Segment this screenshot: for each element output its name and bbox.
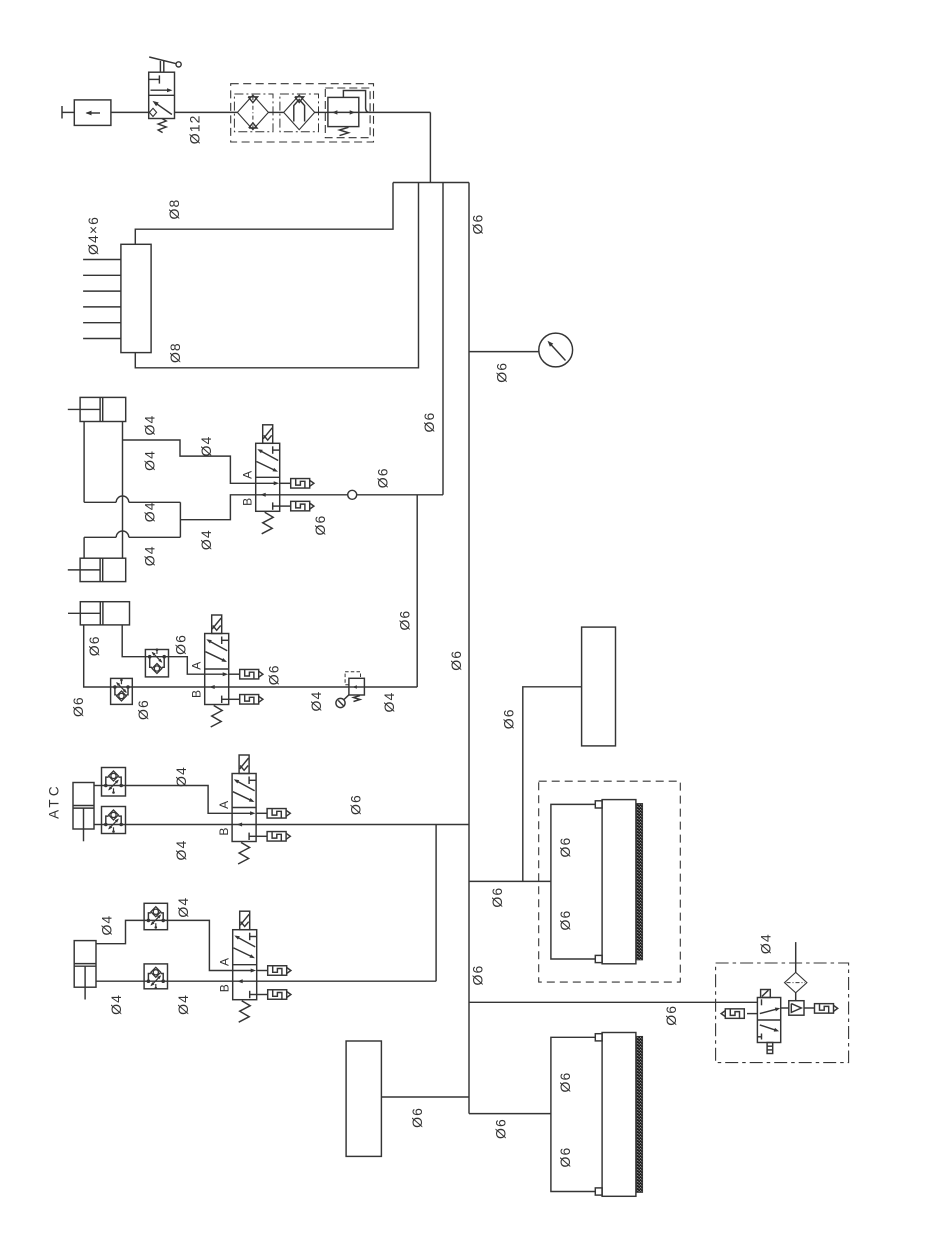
valve V4 position-2 flow paths bbox=[232, 812, 253, 814]
wire check to right muffler bbox=[804, 1007, 815, 1009]
valve V2 position-1 flow paths bbox=[272, 446, 274, 454]
flow control valve FC4b bbox=[102, 807, 126, 834]
svg-text:Ø4: Ø4 bbox=[108, 994, 124, 1015]
FRL filter F2 enclosure bbox=[280, 94, 319, 132]
supply inlet tick bbox=[61, 106, 63, 119]
svg-text:Ø4: Ø4 bbox=[173, 766, 189, 787]
svg-text:Ø6: Ø6 bbox=[470, 214, 486, 235]
wire bus to pressure gauge bbox=[469, 351, 539, 353]
svg-text:Ø6: Ø6 bbox=[469, 965, 485, 986]
valve V3 port A exhaust muffler bbox=[229, 673, 240, 675]
wire V1 to FRL bbox=[175, 111, 238, 113]
valve V4 port B side exhaust muffler bbox=[256, 835, 267, 837]
svg-text:Ø4: Ø4 bbox=[198, 529, 214, 550]
wire riser joining V5 line to V4 line bbox=[435, 825, 437, 982]
wire A-bus to valve V2 port A (Ø4) bbox=[123, 440, 256, 483]
air knife AK2 body bbox=[602, 1033, 636, 1197]
FRL regulator R1 spring bbox=[340, 127, 349, 135]
air knife AK1 supply pipe bbox=[551, 804, 595, 959]
svg-text:Ø6: Ø6 bbox=[501, 708, 517, 729]
wire B-bus upper branch bbox=[84, 501, 116, 503]
riser to manifold M2 bbox=[523, 687, 582, 882]
wire B1 to valve V1 bbox=[111, 111, 149, 113]
FRL filter F1 bbox=[237, 95, 268, 130]
svg-text:A: A bbox=[189, 661, 203, 670]
wire FC1 to valve V3 port A bbox=[169, 657, 205, 675]
valve V4 position-1 flow paths bbox=[248, 777, 250, 785]
svg-text:Ø6: Ø6 bbox=[448, 650, 464, 671]
distribution header bbox=[393, 182, 469, 184]
valve V5 position-1 flow paths bbox=[249, 933, 251, 941]
cylinder C2a piston rod bbox=[68, 408, 100, 410]
wire header to manifold M1 top (Ø8) bbox=[135, 183, 393, 245]
wire filter to check unit bbox=[795, 993, 797, 1001]
hand lever valve V1 body bbox=[149, 72, 175, 118]
svg-text:Ø4: Ø4 bbox=[141, 450, 157, 471]
svg-text:Ø6: Ø6 bbox=[493, 362, 509, 383]
wire C3 cap port to FC2 (Ø6) bbox=[84, 625, 111, 687]
pressure gauge PG1 bbox=[539, 333, 573, 367]
svg-text:Ø6: Ø6 bbox=[663, 1005, 679, 1026]
air knife AK2 inlet fitting bottom bbox=[595, 1188, 602, 1195]
valve V5 port A exhaust muffler bbox=[257, 970, 268, 972]
blow gun filter bbox=[785, 972, 807, 992]
svg-text:Ø4: Ø4 bbox=[141, 545, 157, 566]
svg-text:B: B bbox=[217, 826, 231, 835]
svg-text:Ø4: Ø4 bbox=[308, 691, 324, 712]
wire bus to manifold M2 (Ø6) bbox=[469, 880, 551, 882]
crossover hop arcs on B-bus bbox=[116, 496, 129, 502]
wire B-bus lower branch bbox=[84, 536, 116, 538]
svg-text:Ø4: Ø4 bbox=[175, 994, 191, 1015]
FRL regulator R1 enclosure bbox=[325, 88, 370, 138]
svg-text:Ø4: Ø4 bbox=[198, 436, 214, 457]
pressure regulator R3 body bbox=[349, 678, 365, 695]
wire C5 bottom port to FC5b bbox=[96, 980, 144, 982]
wire bus to blow gun (Ø6) bbox=[469, 1001, 757, 1003]
FRL filter F1 enclosure bbox=[234, 94, 273, 132]
valve V2 body bbox=[256, 443, 280, 511]
svg-text:Ø6: Ø6 bbox=[396, 610, 412, 631]
cylinder C5 body bbox=[74, 941, 96, 988]
manifold M1 outlet stubs Ø4x6 bbox=[83, 259, 121, 261]
flow control valve FC2 bbox=[111, 678, 133, 704]
wire valve V5 through-port to ATC supply line bbox=[257, 980, 436, 982]
coupling on V2 supply line bbox=[348, 490, 357, 499]
wire B-bus to valve V2 port B (Ø4) bbox=[180, 495, 255, 520]
blow gun valve BV1 exhaust stub bbox=[767, 1043, 773, 1054]
valve V5 return spring bbox=[239, 1001, 251, 1023]
svg-text:Ø6: Ø6 bbox=[265, 664, 281, 685]
blow gun check unit bbox=[789, 1001, 804, 1016]
cylinder C2b body bbox=[80, 558, 126, 581]
wire C4 bottom port to FC4b bbox=[94, 824, 102, 826]
wire BV1 outlet to check bbox=[781, 1007, 789, 1009]
svg-text:Ø4: Ø4 bbox=[381, 692, 397, 713]
valve V1 bottom position: check and exhaust path bbox=[149, 108, 156, 116]
wire FC4b to valve V4 port B bbox=[126, 824, 233, 826]
cylinder C3 body bbox=[80, 602, 129, 625]
wire B-bus join bbox=[179, 502, 181, 537]
wire valve V3 through-port to regulator R3 bbox=[229, 686, 349, 688]
wire C3 rod port to FC1 (Ø6) bbox=[122, 625, 145, 657]
valve V4 solenoid bbox=[239, 755, 249, 774]
manifold M2 block bbox=[582, 627, 616, 746]
svg-text:Ø6: Ø6 bbox=[70, 696, 86, 717]
svg-text:Ø6: Ø6 bbox=[557, 837, 573, 858]
svg-text:Ø6: Ø6 bbox=[557, 910, 573, 931]
wire supply drop to header bbox=[429, 112, 431, 182]
svg-text:Ø6: Ø6 bbox=[86, 635, 102, 656]
wire valve V2 supply to riser bbox=[280, 494, 348, 496]
wire FC4a to valve V4 port A (Ø4) bbox=[126, 786, 233, 814]
FRL regulator R1 body bbox=[328, 97, 359, 126]
valve V3 position-1 flow paths bbox=[221, 637, 223, 645]
valve V2 port A exhaust muffler bbox=[280, 482, 291, 484]
svg-text:A: A bbox=[217, 957, 231, 966]
svg-text:Ø8: Ø8 bbox=[167, 342, 183, 363]
valve V3 port B side exhaust muffler bbox=[229, 698, 240, 700]
air knife AK1 body bbox=[602, 800, 636, 964]
wire F2 to R1 bbox=[315, 111, 328, 113]
wire C2b rear port to B-bus bbox=[83, 537, 85, 558]
blow gun outlet line (Ø4) bbox=[795, 942, 797, 972]
pressure regulator R3 dashed pilot box bbox=[345, 672, 360, 685]
wire FRL to corner bbox=[359, 111, 431, 113]
svg-text:Ø6: Ø6 bbox=[421, 412, 437, 433]
valve V2 port B side exhaust muffler bbox=[280, 505, 291, 507]
air knife 1 dashed enclosure bbox=[539, 781, 681, 982]
svg-text:B: B bbox=[189, 689, 203, 698]
svg-text:Ø6: Ø6 bbox=[489, 887, 505, 908]
wire FC5b to valve V5 port B bbox=[168, 980, 233, 982]
svg-text:Ø6: Ø6 bbox=[348, 794, 364, 815]
tee: group-3 supply riser from V2 line bbox=[416, 495, 418, 687]
FRL lubricator F2 bbox=[284, 95, 315, 130]
svg-text:Ø4: Ø4 bbox=[173, 840, 189, 861]
wire C2a rear port to A-bus bbox=[83, 422, 85, 503]
blow gun valve BV1 bottom position paths bbox=[760, 1025, 777, 1031]
blow gun valve BV1 body bbox=[757, 998, 780, 1043]
svg-text:Ø4: Ø4 bbox=[141, 501, 157, 522]
svg-text:Ø6: Ø6 bbox=[557, 1072, 573, 1093]
svg-text:Ø4: Ø4 bbox=[141, 415, 157, 436]
cylinder C5 piston rod bbox=[84, 966, 86, 999]
svg-text:A: A bbox=[217, 800, 231, 809]
FRL assembly enclosure bbox=[231, 84, 374, 142]
wire bus end to air knife 2 bbox=[469, 1113, 551, 1115]
svg-text:Ø12: Ø12 bbox=[187, 114, 203, 144]
valve V5 body bbox=[233, 930, 257, 1000]
wire manifold M1 bottom to header (Ø8) bbox=[135, 183, 418, 368]
cylinder C2a body bbox=[80, 397, 126, 421]
valve V2 solenoid bbox=[263, 425, 273, 444]
valve V2 return spring bbox=[262, 512, 274, 534]
valve V3 position-2 flow paths bbox=[205, 673, 226, 675]
svg-text:B: B bbox=[240, 497, 254, 506]
svg-text:Ø6: Ø6 bbox=[173, 634, 189, 655]
valve V1 lever knob bbox=[176, 62, 181, 67]
wire FC2 to valve V3 port B bbox=[132, 686, 204, 688]
air knife AK1 inlet fitting top bbox=[595, 801, 602, 808]
blow gun valve BV1 top position paths bbox=[761, 999, 763, 1005]
purge block bbox=[346, 1041, 381, 1156]
blow gun valve BV1 pilot stub bbox=[761, 990, 771, 998]
svg-text:B: B bbox=[217, 983, 231, 992]
flow control valve FC5a bbox=[144, 903, 167, 929]
manifold M1 block bbox=[121, 244, 151, 352]
FRL regulator R1 relief loop bbox=[343, 91, 365, 109]
valve V2 position-2 flow paths bbox=[256, 482, 277, 484]
wire FC5a to valve V5 port A bbox=[168, 920, 233, 970]
svg-text:Ø6: Ø6 bbox=[557, 1147, 573, 1168]
valve V3 body bbox=[205, 634, 229, 705]
air knife AK2 nozzle strip bbox=[637, 1036, 643, 1192]
valve V3 solenoid bbox=[212, 615, 222, 634]
wire inlet to check unit bbox=[62, 111, 74, 113]
air knife AK2 inlet fitting top bbox=[595, 1034, 602, 1041]
main distribution bus (Ø6) bbox=[468, 183, 470, 1114]
valve V4 return spring bbox=[238, 843, 250, 865]
valve V1 return spring bbox=[158, 119, 166, 133]
svg-text:Ø4: Ø4 bbox=[99, 915, 115, 936]
cylinder C2b piston rod bbox=[68, 569, 100, 571]
svg-text:Ø4: Ø4 bbox=[175, 897, 191, 918]
svg-text:Ø6: Ø6 bbox=[409, 1107, 425, 1128]
cylinder C4 (ATC) body bbox=[73, 783, 94, 830]
regulator R3 gauge bbox=[344, 695, 349, 700]
valve V4 body bbox=[232, 774, 256, 842]
wire valve V4 through-port to main bus (Ø6) bbox=[256, 824, 469, 826]
wire F1 to F2 bbox=[268, 111, 283, 113]
wire C5 top port to FC5a (Ø4) bbox=[96, 920, 144, 943]
valve V5 port B side exhaust muffler bbox=[257, 994, 268, 996]
wire A-bus verticals (rod ports) bbox=[122, 422, 124, 559]
blow gun valve BV1 left muffler bbox=[747, 1013, 757, 1015]
blow gun enclosure bbox=[716, 963, 849, 1063]
flow control valve FC4a bbox=[102, 768, 126, 797]
regulator R3 spring bbox=[354, 696, 361, 702]
air knife AK2 supply pipe bbox=[551, 1037, 595, 1191]
svg-text:Ø6: Ø6 bbox=[374, 467, 390, 488]
svg-text:ATC: ATC bbox=[47, 783, 62, 819]
valve V1 lever actuator bbox=[159, 61, 161, 72]
svg-text:Ø6: Ø6 bbox=[312, 515, 328, 536]
air knife AK1 nozzle strip bbox=[637, 804, 643, 960]
wire bus to purge block (Ø6) bbox=[381, 1096, 469, 1098]
cylinder C3 piston rod bbox=[68, 612, 100, 614]
svg-text:Ø4: Ø4 bbox=[757, 933, 773, 954]
svg-text:Ø4×6: Ø4×6 bbox=[85, 216, 101, 255]
valve V4 port A exhaust muffler bbox=[256, 812, 267, 814]
svg-text:A: A bbox=[240, 470, 254, 479]
valve V3 return spring bbox=[211, 706, 223, 728]
valve V5 position-2 flow paths bbox=[233, 970, 254, 972]
svg-text:Ø6: Ø6 bbox=[492, 1118, 508, 1139]
air knife AK1 inlet fitting bottom bbox=[595, 955, 602, 962]
svg-text:Ø6: Ø6 bbox=[135, 699, 151, 720]
check unit B1 bbox=[74, 100, 111, 126]
cylinder C4 (ATC) piston rod bbox=[83, 808, 85, 841]
blow gun right muffler bbox=[815, 1004, 834, 1014]
wire header riser to group-2 supply bbox=[442, 183, 444, 495]
valve V5 solenoid bbox=[240, 911, 250, 930]
flow control valve FC5b bbox=[144, 964, 167, 989]
valve V1 top position: blocked port and open path bbox=[149, 78, 160, 80]
svg-text:Ø8: Ø8 bbox=[166, 199, 182, 220]
flow control valve FC1 bbox=[145, 650, 168, 677]
wire R3 to group-3 riser (Ø4) bbox=[364, 686, 417, 688]
wire C4 top port to FC4a bbox=[94, 785, 102, 787]
